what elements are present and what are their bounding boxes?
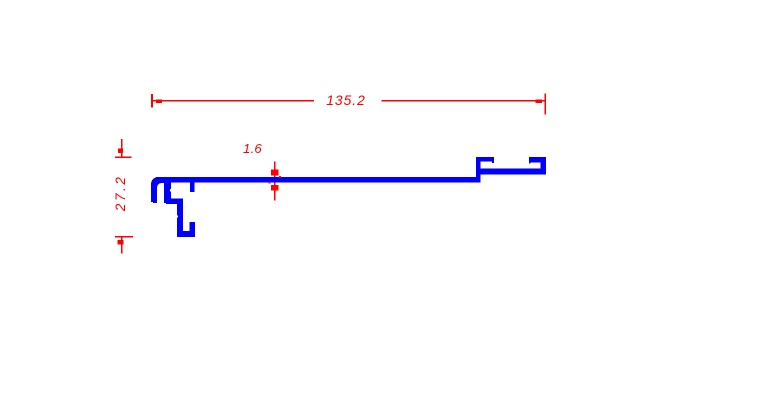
svg-text:1.6: 1.6 [243, 141, 262, 156]
dimension 27.2 : top tick [115, 156, 132, 158]
dimension 27.2 : bottom vertical line [121, 238, 122, 254]
aluminium profile outline (blue) [151, 157, 546, 237]
dimension 135.2 : right line segment [382, 100, 545, 102]
dimension 135.2 : right arrow blob [536, 100, 543, 103]
dimension 27.2 : bottom tick [115, 236, 133, 238]
white notch on big-bar left edge [177, 216, 178, 218]
dimension 27.2 : bottom arrow blob [118, 240, 124, 245]
dimension 135.2 : left arrow blob [156, 99, 162, 102]
dimension 135.2 : right extension tick [545, 94, 546, 115]
dimension 135.2 : left extension tick [151, 94, 153, 108]
dimension 1.6 : vertical line [274, 162, 275, 201]
dimension 1.6 : arrow wing dot over bar (top right) [279, 176, 281, 178]
svg-text:135.2: 135.2 [326, 93, 366, 108]
dimension 1.6 : lower arrow blob [271, 185, 279, 191]
svg-text:27.2: 27.2 [113, 174, 128, 212]
dimension 27.2 : top vertical line [121, 139, 122, 157]
dimension 135.2 : left line segment [153, 100, 314, 102]
dimension 27.2 : top arrow blob [118, 149, 123, 154]
dimension 1.6 : upper arrow blob [271, 169, 279, 175]
dimension 1.6 : arrow wing dot over bar (bottom left) [268, 182, 270, 184]
